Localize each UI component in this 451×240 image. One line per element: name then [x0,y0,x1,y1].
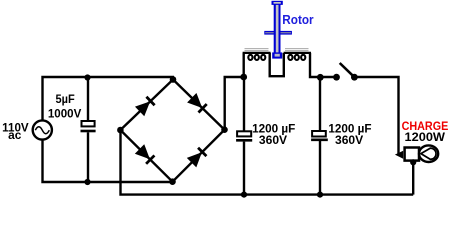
node coil left junction [240,74,247,81]
wire top-left rail [43,77,175,120]
svg-text:5µF: 5µF [56,94,75,106]
lamp LP1 filament cone [421,148,436,159]
diode D2 top-right [188,94,207,113]
node bridge top [170,76,177,83]
svg-text:ac: ac [8,130,22,142]
svg-text:CHARGE: CHARGE [402,119,449,133]
svg-text:1200W: 1200W [405,132,446,144]
node lamp bottom [410,159,416,165]
node DC rail right cap [317,192,323,198]
wire bottom AC rail [43,140,173,182]
wire switch to lamp corner riser [354,77,398,154]
node top cap junction [84,74,90,80]
wire lamp bottom riser [412,161,414,195]
wire junction to switch [320,76,336,78]
svg-text:1200 µF: 1200 µF [252,124,295,136]
node coil right junction [317,74,324,81]
wire bridge diamond [120,80,224,182]
capacitor C1 5uF [81,77,96,182]
node bridge left [117,127,124,134]
wire bridge left riser to DC bottom rail [121,131,414,195]
node bottom cap junction [84,179,90,185]
switch S1 [333,63,358,81]
wire coil U link [270,53,284,76]
wire coil-right to junction [310,53,320,77]
inductor L2 stator coil right [284,49,311,60]
node DC rail left cap [241,192,247,198]
diode D1 top-left [136,97,155,116]
lamp LP1 base [405,148,419,161]
diode D3 bottom-left [136,145,155,164]
AC source V1 [33,120,52,139]
svg-text:1200 µF: 1200 µF [328,124,371,136]
capacitor C3 1200uF [311,77,328,195]
rotor (blue) [264,1,292,59]
svg-text:Rotor: Rotor [282,13,313,27]
lamp: wire-end node at base [395,151,403,159]
capacitor C2 1200uF [236,77,252,195]
svg-text:360V: 360V [259,135,288,147]
node bridge bottom [169,178,176,185]
inductor L1 stator coil left [243,49,271,77]
node bridge right [221,126,228,133]
lamp LP1 bulb [419,145,438,162]
diode D4 bottom-right [188,148,207,167]
svg-text:1000V: 1000V [48,108,82,120]
svg-text:360V: 360V [335,135,364,147]
wire bridge right riser to top rail [225,77,244,129]
